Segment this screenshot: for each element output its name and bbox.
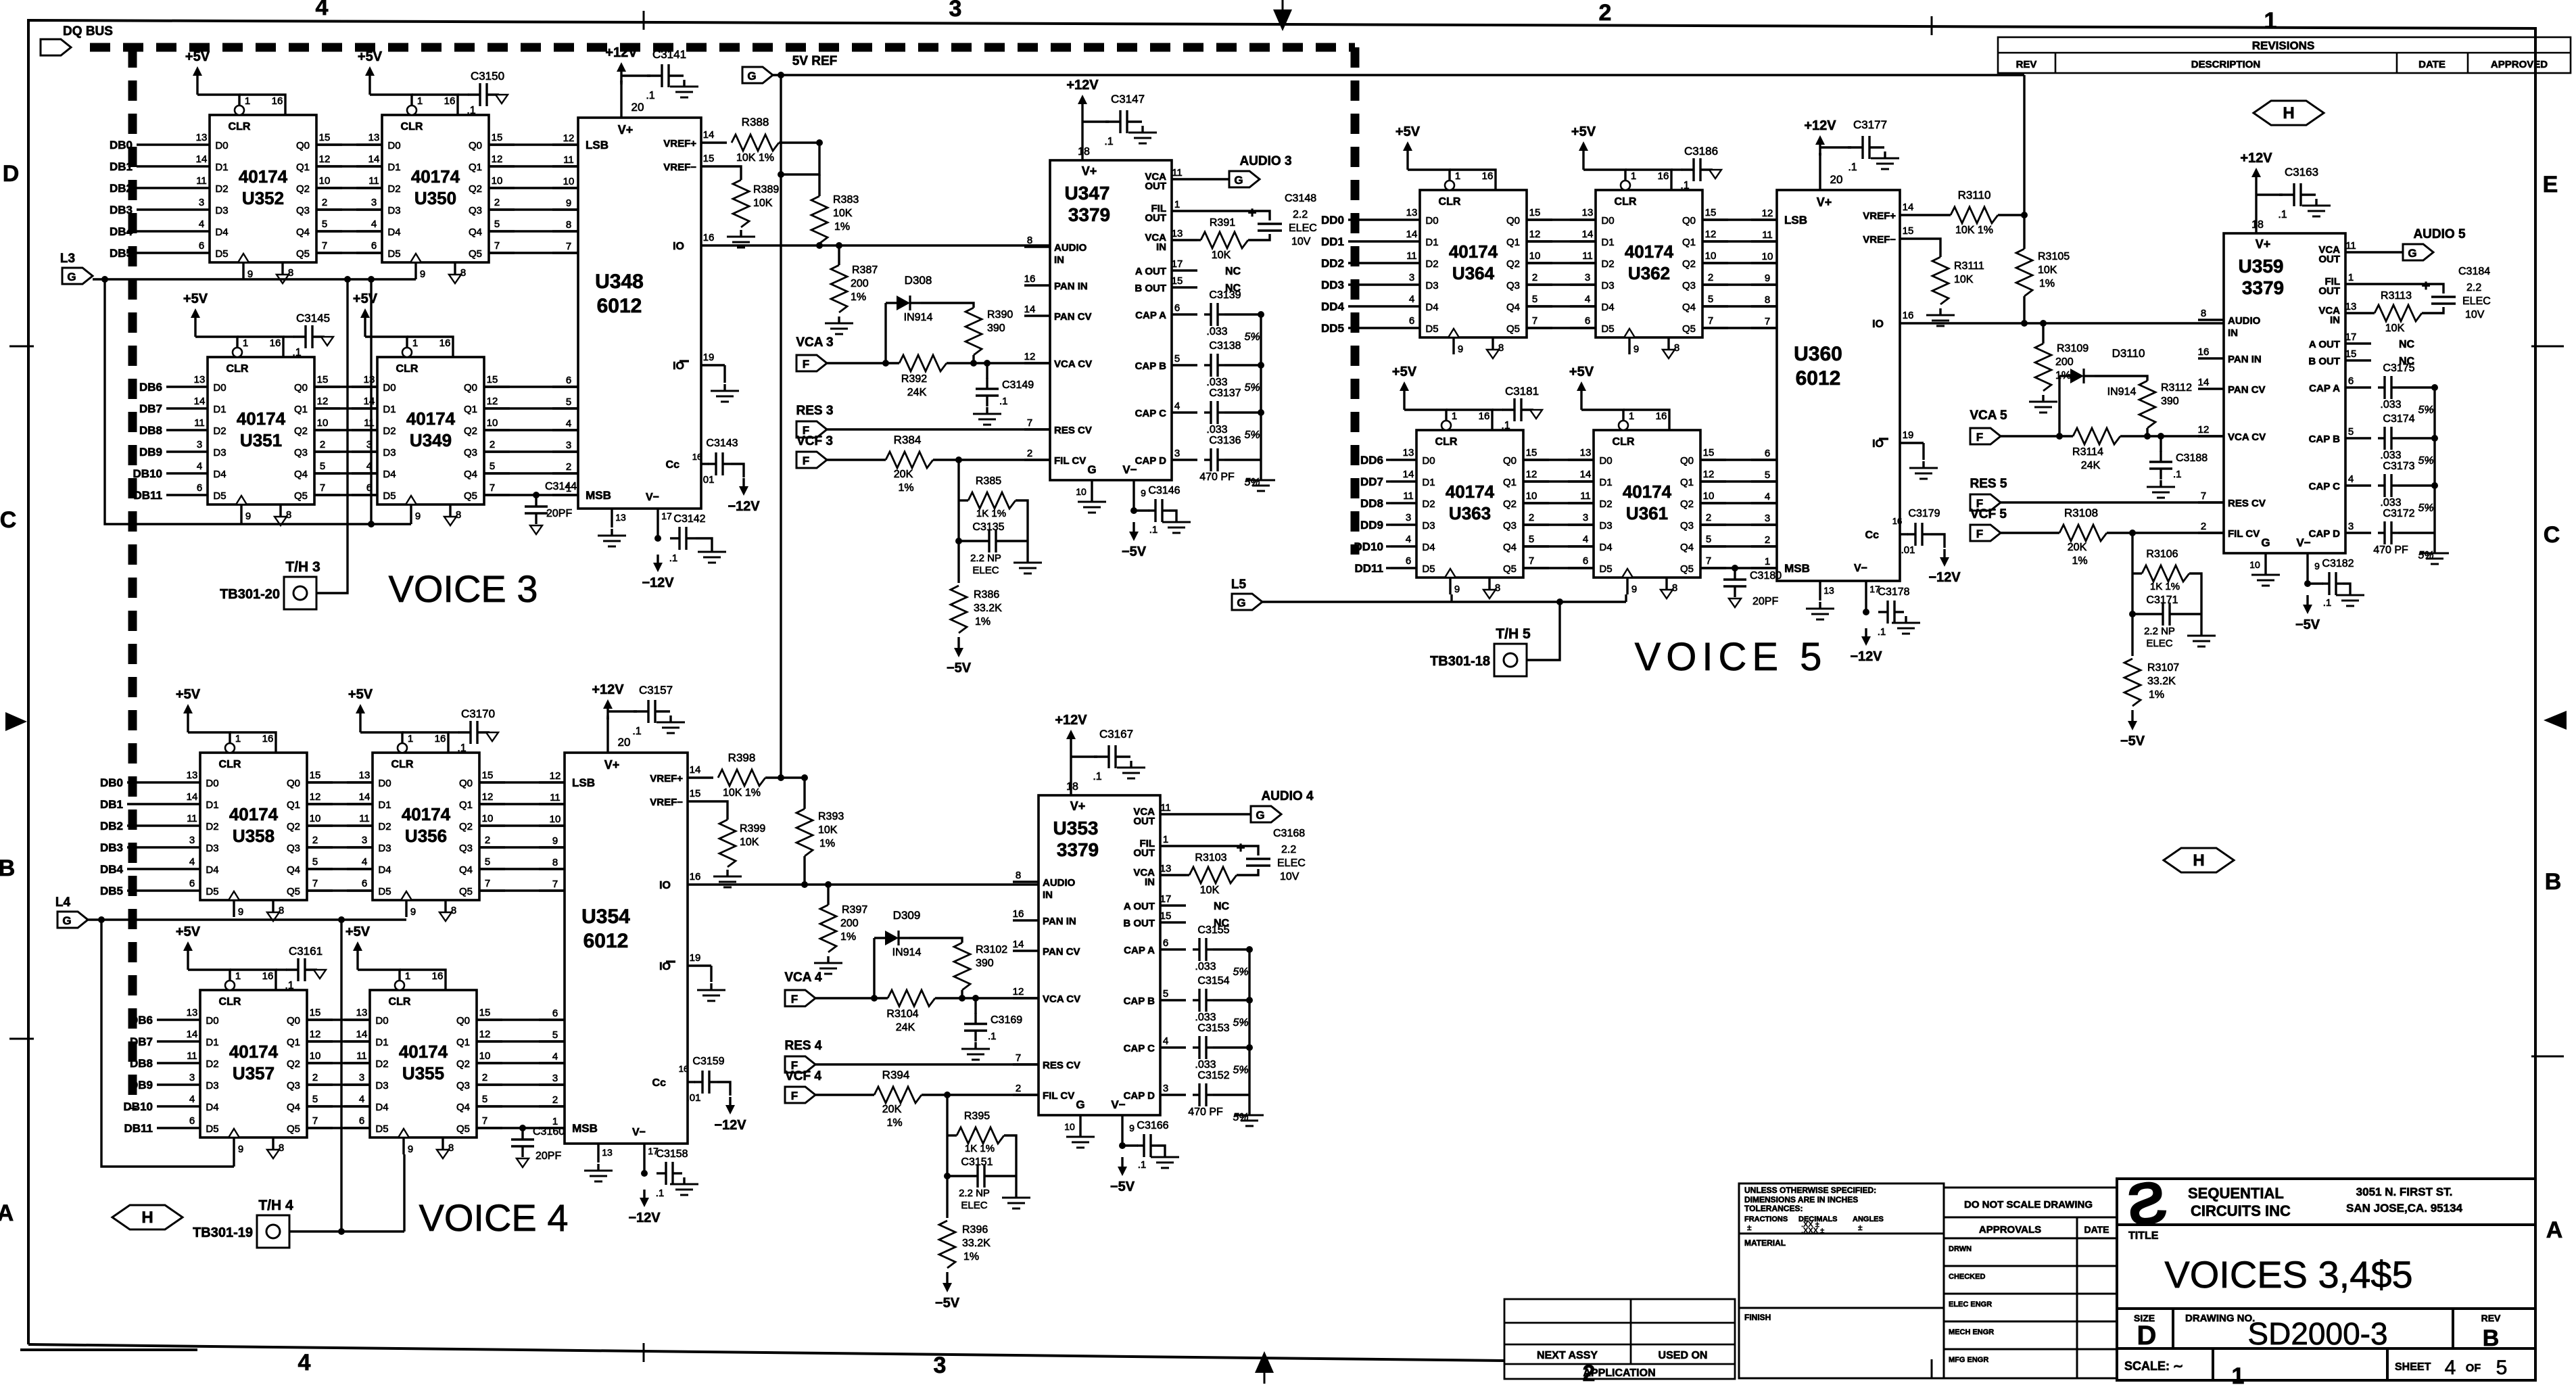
svg-text:D0: D0 <box>206 778 218 789</box>
svg-text:+5V: +5V <box>185 49 210 64</box>
svg-text:.1: .1 <box>1104 136 1113 147</box>
svg-text:20PF: 20PF <box>535 1150 561 1162</box>
svg-text:CLR: CLR <box>391 759 414 770</box>
svg-text:CLR: CLR <box>1439 196 1461 208</box>
svg-text:DB2: DB2 <box>100 820 123 832</box>
svg-text:DB7: DB7 <box>139 402 162 415</box>
svg-text:R3102: R3102 <box>976 944 1007 956</box>
svg-text:Q0: Q0 <box>287 778 300 789</box>
svg-text:7: 7 <box>552 878 558 890</box>
svg-text:5%: 5% <box>1233 966 1248 978</box>
svg-text:R3110: R3110 <box>1958 189 1991 202</box>
svg-text:R385: R385 <box>976 475 1001 487</box>
svg-text:C3141: C3141 <box>652 48 686 61</box>
wire U363 pin9 to clock run <box>1450 594 1452 602</box>
svg-text:1: 1 <box>408 733 413 745</box>
svg-text:PAN CV: PAN CV <box>1054 311 1092 323</box>
svg-text:2: 2 <box>485 835 490 846</box>
svg-text:C3136: C3136 <box>1209 435 1241 446</box>
svg-text:C3167: C3167 <box>1099 728 1133 741</box>
diode D308 IN914 <box>884 303 886 363</box>
svg-text:U349: U349 <box>410 430 452 450</box>
svg-text:3: 3 <box>371 197 377 208</box>
svg-text:C3182: C3182 <box>2322 558 2354 569</box>
svg-text:ELEC: ELEC <box>2146 638 2172 649</box>
svg-text:12: 12 <box>487 396 498 407</box>
svg-text:.033: .033 <box>1206 326 1227 337</box>
svg-text:TITLE: TITLE <box>2128 1230 2159 1242</box>
svg-text:12: 12 <box>1024 351 1036 362</box>
svg-text:R391: R391 <box>1210 217 1235 229</box>
svg-text:APPROVED: APPROVED <box>2491 59 2548 70</box>
DQ bus heavy dashed horizontal <box>90 43 1355 52</box>
svg-text:.1: .1 <box>632 726 641 737</box>
svg-text:.1: .1 <box>292 347 301 358</box>
svg-text:C3181: C3181 <box>1505 385 1539 398</box>
svg-text:11: 11 <box>187 813 197 824</box>
svg-text:+12V: +12V <box>592 682 624 697</box>
approvals block <box>1944 1188 2117 1378</box>
svg-text:1%: 1% <box>2149 689 2164 701</box>
svg-text:R383: R383 <box>833 194 859 206</box>
svg-text:C3138: C3138 <box>1209 340 1241 352</box>
svg-text:G: G <box>2261 536 2270 549</box>
resistor R3110 10K 1% <box>1926 214 1951 216</box>
svg-text:U353: U353 <box>1053 818 1099 839</box>
IC U363 40174 <box>1416 430 1523 578</box>
svg-text:VCF 3: VCF 3 <box>796 434 833 448</box>
border centering arrow bottom <box>1255 1351 1274 1373</box>
svg-text:CAP B: CAP B <box>1135 360 1167 372</box>
svg-text:R394: R394 <box>882 1069 910 1081</box>
svg-text:12: 12 <box>563 133 575 144</box>
svg-text:CLR: CLR <box>1613 436 1635 448</box>
flag RES 4 <box>785 1056 815 1073</box>
svg-text:DB6: DB6 <box>139 381 162 394</box>
svg-text:SAN JOSE,CA. 95134: SAN JOSE,CA. 95134 <box>2346 1202 2463 1215</box>
svg-text:A: A <box>0 1200 14 1226</box>
svg-text:V+: V+ <box>618 123 634 137</box>
svg-text:Q1: Q1 <box>1503 477 1517 488</box>
svg-text:5%: 5% <box>1233 1017 1248 1029</box>
IC U358 40174 <box>200 753 307 900</box>
svg-text:11: 11 <box>1172 167 1183 179</box>
T/H 4 terminal box TB301-19 <box>257 1215 289 1248</box>
svg-text:4: 4 <box>1585 294 1590 305</box>
svg-text:D2: D2 <box>387 183 400 195</box>
svg-text:D5: D5 <box>206 1123 218 1135</box>
svg-text:5: 5 <box>552 1029 558 1041</box>
capacitor C3151 2.2 NP ELEC <box>965 1175 978 1177</box>
svg-text:Q2: Q2 <box>469 183 482 195</box>
svg-text:14: 14 <box>1024 304 1036 315</box>
svg-text:5: 5 <box>320 461 325 472</box>
svg-text:G: G <box>1076 1098 1084 1111</box>
svg-text:Q2: Q2 <box>464 425 477 437</box>
svg-text:.1: .1 <box>999 396 1008 407</box>
wire R3114 to VCA CV pin <box>2120 435 2224 437</box>
svg-text:1: 1 <box>417 95 423 107</box>
svg-text:15: 15 <box>1160 910 1172 922</box>
svg-text:2: 2 <box>312 835 318 846</box>
svg-text:7: 7 <box>320 482 325 494</box>
svg-text:13: 13 <box>1582 207 1594 218</box>
svg-text:13: 13 <box>1172 228 1183 239</box>
svg-text:10: 10 <box>1076 486 1087 497</box>
svg-text:13: 13 <box>1160 863 1172 874</box>
wires U355 Q outputs to U354 DAC bits <box>477 1018 565 1020</box>
svg-text:8: 8 <box>460 267 466 279</box>
svg-text:U359: U359 <box>2239 256 2284 277</box>
svg-text:+12V: +12V <box>2240 151 2272 166</box>
svg-text:AUDIO 5: AUDIO 5 <box>2413 227 2466 241</box>
svg-text:DIMENSIONS ARE IN INCHES: DIMENSIONS ARE IN INCHES <box>1744 1195 1858 1204</box>
svg-text:8: 8 <box>1674 342 1679 354</box>
svg-text:7: 7 <box>312 1115 318 1127</box>
svg-text:NC: NC <box>1225 266 1241 277</box>
svg-text:2.2 NP: 2.2 NP <box>959 1188 990 1199</box>
+12V supply U359 with C3163 <box>2255 170 2257 188</box>
svg-text:G: G <box>1256 809 1264 822</box>
svg-text:D4: D4 <box>213 469 226 480</box>
svg-text:10K 1%: 10K 1% <box>723 787 761 799</box>
U360 pin Cc with C3179 .01 <box>1900 533 1908 535</box>
svg-text:C3145: C3145 <box>296 312 330 325</box>
svg-text:+5V: +5V <box>345 924 371 939</box>
svg-text:C3144: C3144 <box>545 481 577 492</box>
svg-text:Q1: Q1 <box>296 162 310 173</box>
svg-text:4: 4 <box>1406 534 1411 545</box>
svg-text:+12V: +12V <box>605 45 638 60</box>
svg-text:Q4: Q4 <box>459 864 473 876</box>
svg-text:16: 16 <box>692 452 702 462</box>
svg-text:V+: V+ <box>604 758 620 772</box>
flag 5V REF <box>742 67 773 83</box>
svg-text:14: 14 <box>196 154 208 165</box>
svg-text:R3111: R3111 <box>1954 260 1984 272</box>
svg-text:15: 15 <box>319 132 331 143</box>
svg-text:G: G <box>1237 596 1245 609</box>
svg-text:3: 3 <box>197 439 202 450</box>
capacitor C3184 2.2 ELEC 10V <box>2371 284 2443 294</box>
svg-text:20K: 20K <box>2068 542 2087 553</box>
svg-text:PAN CV: PAN CV <box>1043 946 1080 958</box>
svg-text:11: 11 <box>194 417 205 429</box>
svg-text:D1: D1 <box>387 162 400 173</box>
svg-text:40174: 40174 <box>399 1041 448 1062</box>
svg-text:PAN CV: PAN CV <box>2228 384 2266 396</box>
svg-text:5%: 5% <box>2418 404 2433 416</box>
svg-text:10K 1%: 10K 1% <box>1955 225 1993 236</box>
svg-text:T/H 3: T/H 3 <box>285 559 320 575</box>
+12V supply U348 with C3141 <box>620 65 622 83</box>
svg-text:A OUT: A OUT <box>1124 901 1155 912</box>
svg-text:470 PF: 470 PF <box>1188 1106 1223 1118</box>
svg-text:7: 7 <box>1765 316 1770 327</box>
wire L5 clock run voice5 <box>1262 601 1626 603</box>
+5V supply for U363 <box>1403 384 1405 410</box>
svg-text:VREF+: VREF+ <box>650 773 683 784</box>
capacitor C3167 .1 <box>1094 755 1109 757</box>
svg-text:.1: .1 <box>1878 626 1886 638</box>
svg-text:+5V: +5V <box>358 49 383 64</box>
flag VCF 5 <box>1970 525 2001 541</box>
svg-text:CLR: CLR <box>226 363 249 375</box>
U348 pin VREF+ 14 <box>701 141 727 143</box>
DQ BUS flag <box>41 39 71 55</box>
svg-text:−12V: −12V <box>714 1118 746 1133</box>
svg-text:6012: 6012 <box>583 930 629 952</box>
svg-text:Q5: Q5 <box>459 886 473 897</box>
svg-text:4: 4 <box>1174 400 1180 412</box>
svg-text:3: 3 <box>1409 272 1414 283</box>
svg-text:CLR: CLR <box>396 363 419 375</box>
capacitor C3182 .1 <box>2322 582 2329 584</box>
svg-text:20K: 20K <box>894 469 913 480</box>
svg-text:Q0: Q0 <box>469 140 482 151</box>
svg-text:16: 16 <box>435 733 446 745</box>
svg-text:10: 10 <box>563 176 575 187</box>
svg-text:NEXT ASSY: NEXT ASSY <box>1537 1350 1598 1361</box>
svg-text:11: 11 <box>364 417 375 429</box>
svg-text:DD11: DD11 <box>1354 562 1383 575</box>
svg-text:DD7: DD7 <box>1360 475 1383 488</box>
svg-text:−5V: −5V <box>1110 1179 1135 1194</box>
svg-text:C3178: C3178 <box>1878 586 1909 598</box>
svg-text:DD10: DD10 <box>1354 540 1383 553</box>
U360 pin VREF- 15 <box>1900 237 1926 239</box>
svg-text:10K: 10K <box>740 837 759 848</box>
svg-text:D0: D0 <box>215 140 228 151</box>
svg-text:G: G <box>1234 174 1243 187</box>
svg-text:D1: D1 <box>383 404 396 415</box>
svg-text:C3169: C3169 <box>991 1014 1022 1026</box>
svg-text:20K: 20K <box>882 1104 902 1115</box>
svg-text:15: 15 <box>1172 275 1183 287</box>
svg-text:CLR: CLR <box>401 121 423 133</box>
svg-text:40174: 40174 <box>1446 482 1495 502</box>
svg-text:F: F <box>803 454 809 467</box>
svg-text:390: 390 <box>2161 396 2179 407</box>
svg-text:U347: U347 <box>1065 183 1110 204</box>
svg-text:A OUT: A OUT <box>2309 339 2340 350</box>
svg-text:10K: 10K <box>1200 885 1220 896</box>
svg-text:4: 4 <box>298 1350 311 1376</box>
svg-text:.033: .033 <box>1195 1059 1216 1071</box>
svg-text:VOICE 5: VOICE 5 <box>1635 635 1828 679</box>
svg-text:6: 6 <box>359 1115 364 1127</box>
svg-text:Q5: Q5 <box>456 1123 470 1135</box>
svg-text:U348: U348 <box>595 271 644 293</box>
svg-text:13: 13 <box>602 1147 613 1158</box>
svg-text:ELEC: ELEC <box>2462 296 2491 307</box>
svg-text:16: 16 <box>262 970 274 982</box>
wires U349 Q outputs to U348 DAC bits <box>484 385 578 388</box>
wire RES3 to RES CV <box>827 428 1050 430</box>
svg-text:T/H 4: T/H 4 <box>258 1198 293 1213</box>
svg-text:.01: .01 <box>687 1092 701 1104</box>
svg-text:3: 3 <box>1406 512 1411 523</box>
svg-text:6: 6 <box>1765 448 1770 459</box>
svg-text:R3113: R3113 <box>2381 290 2412 302</box>
svg-text:3: 3 <box>2348 521 2354 532</box>
resistor R391 10K <box>1201 232 1248 248</box>
border centering arrow right <box>2544 711 2567 730</box>
svg-text:Q2: Q2 <box>1506 258 1520 270</box>
svg-text:Q3: Q3 <box>459 843 473 854</box>
svg-text:C3170: C3170 <box>461 707 495 720</box>
svg-text:D5: D5 <box>383 490 396 502</box>
svg-text:15: 15 <box>690 788 701 799</box>
svg-text:Q0: Q0 <box>296 140 310 151</box>
svg-text:MSB: MSB <box>586 489 611 502</box>
svg-text:D0: D0 <box>1422 455 1435 467</box>
svg-text:C3153: C3153 <box>1197 1023 1229 1034</box>
IC U359 3379 VCF/VCA <box>2224 233 2345 553</box>
svg-text:5: 5 <box>2348 426 2354 438</box>
U353 G pin ground <box>1079 1130 1081 1137</box>
svg-text:D2: D2 <box>206 1058 218 1070</box>
svg-text:10: 10 <box>317 417 329 429</box>
svg-text:DO NOT SCALE DRAWING: DO NOT SCALE DRAWING <box>1964 1199 2093 1211</box>
svg-text:17: 17 <box>661 511 672 521</box>
svg-text:2.2 NP: 2.2 NP <box>2144 626 2175 637</box>
svg-text:.1: .1 <box>988 1031 997 1042</box>
IC U347 3379 VCF/VCA <box>1050 160 1172 480</box>
svg-text:5: 5 <box>494 218 500 230</box>
svg-text:.1: .1 <box>467 105 475 116</box>
svg-text:3: 3 <box>359 1072 364 1083</box>
svg-text:V−: V− <box>646 492 659 503</box>
svg-text:14: 14 <box>356 1029 368 1040</box>
capacitor C3149 .1 <box>986 363 988 379</box>
svg-text:+5V: +5V <box>1396 124 1421 139</box>
svg-text:10: 10 <box>310 1050 321 1062</box>
svg-text:1: 1 <box>235 970 241 982</box>
svg-text:+5V: +5V <box>348 687 373 702</box>
svg-text:10K: 10K <box>1954 274 1974 285</box>
resistor R384 20K 1% <box>886 452 933 468</box>
svg-text:D3110: D3110 <box>2112 347 2145 360</box>
svg-text:.1: .1 <box>1149 524 1158 536</box>
svg-text:B OUT: B OUT <box>2308 356 2340 367</box>
svg-text:2: 2 <box>312 1072 318 1083</box>
svg-text:470 PF: 470 PF <box>1199 471 1235 483</box>
svg-text:5: 5 <box>312 856 318 868</box>
U347 V- pin with C3146 <box>1132 504 1135 511</box>
svg-text:RES 3: RES 3 <box>796 404 834 418</box>
svg-text:1: 1 <box>1629 410 1634 422</box>
svg-text:2: 2 <box>1027 448 1032 459</box>
svg-text:14: 14 <box>1013 939 1024 950</box>
filter capacitors C3155 C3154 C3153 C3152 on CAP A-D <box>1193 948 1199 950</box>
svg-text:9: 9 <box>2314 561 2320 571</box>
svg-text:CLR: CLR <box>229 121 251 133</box>
svg-text:+5V: +5V <box>176 687 201 702</box>
svg-text:VOICE 3: VOICE 3 <box>389 567 538 610</box>
svg-text:IO: IO <box>1872 319 1884 330</box>
svg-text:H: H <box>2283 104 2294 122</box>
svg-text:12: 12 <box>1762 208 1773 219</box>
svg-text:15: 15 <box>487 374 498 385</box>
capacitor C3148 2.2 ELEC 10V <box>1197 211 1270 220</box>
svg-text:U361: U361 <box>1626 503 1668 523</box>
resistor R3103 10K <box>1189 867 1237 883</box>
resistor R393 10K 1% <box>796 809 813 856</box>
svg-text:1: 1 <box>1163 834 1168 845</box>
printed-from footnote bottom left <box>20 1348 197 1351</box>
svg-text:9: 9 <box>552 835 558 847</box>
svg-text:CLR: CLR <box>1615 196 1637 208</box>
svg-text:Q0: Q0 <box>1503 455 1517 467</box>
wire L3 clock run voice3 bottom <box>105 279 411 524</box>
svg-text:MFG ENGR: MFG ENGR <box>1949 1356 1988 1364</box>
svg-text:CAP B: CAP B <box>2309 433 2341 445</box>
capacitor C3163 .1 <box>2279 193 2294 195</box>
IC U355 40174 <box>370 990 477 1137</box>
svg-text:5V REF: 5V REF <box>792 54 838 68</box>
svg-text:D4: D4 <box>1599 542 1612 553</box>
resistor R399 10K <box>713 801 728 820</box>
svg-text:5: 5 <box>1708 294 1713 305</box>
wire VCF4 to R394 <box>815 1094 874 1096</box>
svg-text:R396: R396 <box>962 1224 988 1236</box>
svg-text:VREF−: VREF− <box>663 162 696 173</box>
svg-text:F: F <box>791 993 798 1006</box>
svg-text:8: 8 <box>279 1142 284 1154</box>
svg-text:B: B <box>2545 869 2562 895</box>
svg-text:USED ON: USED ON <box>1659 1350 1708 1361</box>
svg-text:D5: D5 <box>1601 323 1614 335</box>
+5V supply for U351 <box>194 311 196 337</box>
svg-text:+12V: +12V <box>1804 118 1836 133</box>
svg-text:C3177: C3177 <box>1853 118 1887 131</box>
svg-text:13: 13 <box>359 770 371 781</box>
resistor R392 24K <box>899 355 947 371</box>
svg-text:R395: R395 <box>964 1110 990 1122</box>
svg-text:DB9: DB9 <box>130 1079 153 1091</box>
capacitor C3141 .1 <box>647 74 662 76</box>
svg-text:3: 3 <box>1163 1083 1168 1094</box>
wire T/H5 to clock run <box>1527 602 1560 660</box>
svg-text:40174: 40174 <box>1449 241 1498 262</box>
svg-text:6: 6 <box>189 878 195 889</box>
svg-text:8: 8 <box>1498 342 1504 354</box>
resistor R383 10K 1% <box>818 174 820 196</box>
svg-text:8: 8 <box>1672 582 1677 594</box>
tolerance block <box>1739 1183 1944 1378</box>
wire R398 node to R393 <box>803 778 805 809</box>
svg-text:U356: U356 <box>405 826 447 846</box>
+5V supply for U355 <box>356 944 358 970</box>
svg-text:Q0: Q0 <box>294 382 308 394</box>
+5V supply for U358 <box>187 707 189 732</box>
svg-text:CLR: CLR <box>219 759 241 770</box>
svg-text:D2: D2 <box>1425 258 1438 270</box>
U348 pin IO-bar 19 <box>701 364 725 366</box>
svg-text:13: 13 <box>187 1007 198 1018</box>
svg-text:.01: .01 <box>700 474 715 486</box>
svg-text:C3135: C3135 <box>972 521 1004 533</box>
svg-text:DB11: DB11 <box>124 1122 153 1135</box>
svg-text:9: 9 <box>1454 584 1460 595</box>
svg-text:DRAWING NO.: DRAWING NO. <box>2185 1313 2255 1324</box>
svg-text:12: 12 <box>319 154 331 165</box>
+5V supply for U356 <box>359 707 361 732</box>
svg-text:B: B <box>2483 1325 2500 1351</box>
svg-text:7: 7 <box>482 1115 487 1127</box>
svg-text:20: 20 <box>631 101 644 114</box>
